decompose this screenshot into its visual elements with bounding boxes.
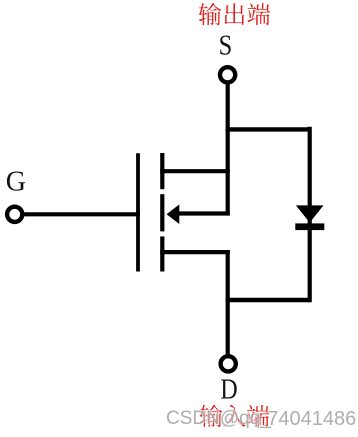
svg-text:S: S (219, 30, 233, 61)
wire: bottom branch from diode (horizontal) (226, 298, 310, 302)
wire: gate lead (24, 212, 140, 216)
watermark CSDN @qq_74041486 (166, 408, 356, 430)
wire: top branch to diode (horizontal) (226, 127, 310, 131)
svg-text:74041486: 74041486 (267, 408, 356, 430)
terminal S (open circle) (220, 67, 235, 82)
transistor M1: body wire (176, 211, 230, 215)
wire: source stem (S circle down to body wire) (226, 83, 230, 215)
transistor M1: channel dash (drain side, top) (160, 153, 164, 189)
transistor M1: channel dash (body, middle) (160, 194, 164, 231)
transistor M1: gate bar (136, 153, 140, 271)
svg-text:CSDN@qq_: CSDN@qq_ (166, 408, 271, 429)
svg-text:G: G (6, 167, 26, 198)
diode D1: cathode bar (295, 223, 324, 230)
svg-text:D: D (220, 375, 237, 406)
terminal G (open circle) (7, 207, 22, 222)
label: input terminal text 输入端 (red) (200, 405, 270, 427)
transistor M1: source connection (bottom horizontal) (160, 250, 230, 254)
transistor M1: body arrow (points to channel) (167, 204, 180, 224)
terminal D (open circle) (221, 356, 236, 371)
transistor M1: channel dash (source side, bottom) (160, 236, 164, 271)
wire: drain stem (down to D circle) (226, 250, 230, 354)
wire: diode branch (vertical) (308, 127, 312, 302)
transistor M1: drain connection (top horizontal) (160, 169, 230, 173)
diode D1: anode triangle (296, 205, 324, 222)
label: output terminal text 输出端 (red) (199, 3, 270, 25)
